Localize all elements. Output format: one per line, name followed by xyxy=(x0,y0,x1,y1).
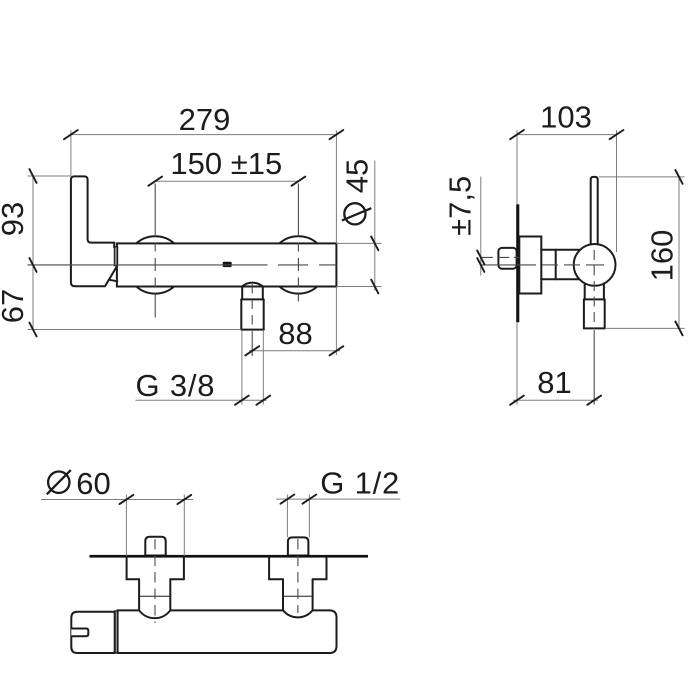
extension line outlet bottom left xyxy=(28,329,242,331)
neck between plate and body xyxy=(541,249,580,251)
dimension 150 tick right xyxy=(292,177,306,186)
left rosette vertical centerline xyxy=(154,184,156,237)
extension line lever top xyxy=(28,175,71,177)
right rosette vertical centerline xyxy=(297,184,299,237)
outlet side step xyxy=(584,298,605,300)
d45 tick bottom xyxy=(371,280,378,294)
escutcheon circle right (rosette d60) xyxy=(270,236,327,293)
svg-text:67: 67 xyxy=(0,289,30,323)
dimension 81 tick left xyxy=(510,396,524,405)
body tube (d45 horizontal cylinder) xyxy=(117,243,337,286)
dimension 160 vertical line xyxy=(678,177,680,329)
body (bottom view) xyxy=(118,610,337,653)
dimension d60 leader line xyxy=(41,499,193,501)
G 3/8 tick right xyxy=(256,396,270,405)
dimension 160 tick top xyxy=(675,170,682,184)
G 1/2 tick left xyxy=(281,495,295,504)
dimension d45: extension lines right of body xyxy=(336,242,381,244)
+/-7,5 tick lower xyxy=(477,258,484,272)
flow indicator dot (small black rect on body) xyxy=(223,262,232,267)
dimension 160 extension top xyxy=(599,176,685,178)
G 1/2 extension lines xyxy=(286,495,288,538)
dimension 279 tick left xyxy=(64,130,78,139)
dimension 103 line xyxy=(517,134,617,136)
dimension 103 extension left xyxy=(516,130,518,204)
handle collar strip (bottom view) xyxy=(115,611,118,653)
tick 67 bottom xyxy=(29,323,36,337)
neck divider line xyxy=(555,250,557,279)
+/-7,5 tick upper xyxy=(477,251,484,265)
body end circle (d45) xyxy=(574,244,616,286)
G 3/8 leader line xyxy=(136,399,267,401)
d45 tick top xyxy=(371,237,378,251)
outlet lower G3/8 nipple xyxy=(240,299,242,329)
G 3/8 extension lines xyxy=(241,331,243,405)
handle block (bottom view) xyxy=(71,612,114,653)
supply fitting behind wall xyxy=(498,248,516,269)
escutcheon left stem xyxy=(138,579,140,597)
dimension 81 tick right xyxy=(587,396,601,405)
escutcheon right wide part xyxy=(268,558,270,580)
dimension 160 tick bottom xyxy=(675,322,682,336)
escutcheon left wide part xyxy=(126,558,128,580)
dimension 160 extension bottom xyxy=(605,327,685,329)
svg-text:160: 160 xyxy=(644,230,679,282)
outlet step line xyxy=(241,298,263,300)
dimension G 1/2 leader line xyxy=(276,498,400,500)
lever handle (L-shape) xyxy=(71,176,117,286)
dimension 88 line xyxy=(249,350,340,352)
handle slot notch xyxy=(71,629,88,637)
escutcheon circle left (rosette d60) xyxy=(127,236,184,293)
bottom view centerline left xyxy=(154,539,156,623)
dimension 88 tick right xyxy=(330,346,344,355)
side axis horizontal (dash-dot) xyxy=(481,264,536,266)
svg-text:60: 60 xyxy=(76,466,110,501)
svg-text:103: 103 xyxy=(540,99,592,134)
dimension 150 +/-15 line xyxy=(155,180,298,182)
svg-text:81: 81 xyxy=(537,365,571,400)
dimension 103 tick left xyxy=(510,130,524,139)
outlet dome cap xyxy=(242,283,263,287)
lever rod (side) xyxy=(591,177,598,245)
dimension 88 tick left xyxy=(245,346,259,355)
d60 tick right xyxy=(177,495,191,504)
dimension 93/67 vertical line xyxy=(32,176,34,330)
wall line (thick) xyxy=(516,204,519,322)
dimension 81 extension left (below wall) xyxy=(516,322,518,404)
svg-text:93: 93 xyxy=(0,202,30,236)
supply fitting right (above wall) xyxy=(288,537,309,555)
svg-text:150 ±15: 150 ±15 xyxy=(170,146,282,181)
d45 diameter symbol xyxy=(344,203,365,224)
dimension 279 extension right / 88 extension xyxy=(335,130,337,243)
wall plate (rosette side) xyxy=(519,237,541,294)
svg-text:88: 88 xyxy=(278,316,312,351)
svg-text:45: 45 xyxy=(339,159,374,193)
dimension 279 extension left xyxy=(70,130,72,176)
dimension 103 tick right xyxy=(610,130,624,139)
dimension 150 tick left xyxy=(148,177,162,186)
dimension 81 line xyxy=(513,399,598,401)
cartridge collar gap (grey strip) xyxy=(114,247,117,266)
svg-text:G 1/2: G 1/2 xyxy=(320,466,400,501)
dimension 279 tick right xyxy=(330,130,344,139)
tick centerline xyxy=(29,258,36,272)
wall line (thick) xyxy=(90,555,369,558)
d60 tick left xyxy=(120,495,134,504)
tick 93 top xyxy=(29,169,36,183)
body centerline horizontal (dash-dot) xyxy=(28,264,268,266)
outlet side lower nipple xyxy=(583,299,585,328)
outlet vertical centerline xyxy=(251,284,253,330)
dimension d45 vertical line xyxy=(374,161,376,291)
svg-text:G 3/8: G 3/8 xyxy=(136,368,216,403)
dimension 279 line xyxy=(71,134,337,136)
bottom view centerline right xyxy=(297,539,299,613)
stem dome right xyxy=(283,597,313,618)
outlet side upper tube xyxy=(584,284,586,300)
svg-text:279: 279 xyxy=(179,102,231,137)
svg-text:±7,5: ±7,5 xyxy=(442,176,477,236)
G 1/2 tick right xyxy=(303,495,317,504)
d60 diameter symbol xyxy=(48,472,69,493)
supply fitting left (above wall) xyxy=(145,537,165,556)
outlet upper tube xyxy=(241,287,243,300)
G 3/8 tick left xyxy=(235,396,249,405)
fitting axis (dashed) xyxy=(481,256,520,258)
stem dome left xyxy=(139,597,170,618)
outlet vertical centerline (side) xyxy=(593,250,595,328)
lever cone base line xyxy=(109,280,118,282)
dimension +/-7,5 vertical line xyxy=(480,177,482,276)
dimension 103 extension right xyxy=(616,130,618,252)
escutcheon right stem xyxy=(282,579,284,597)
d60 extension lines xyxy=(125,495,127,557)
